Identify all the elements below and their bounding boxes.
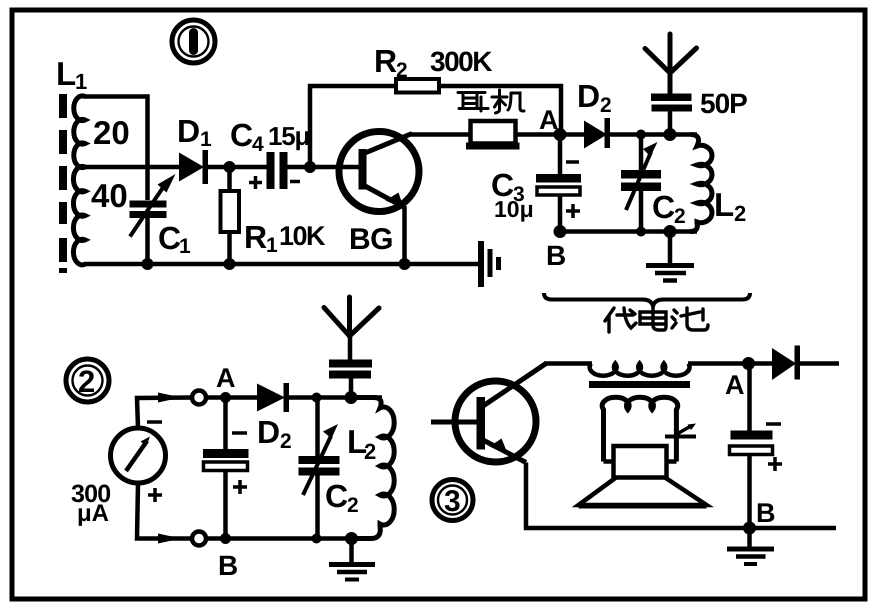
svg-text:C: C bbox=[325, 478, 348, 514]
wire: earphone to node A bbox=[516, 132, 560, 137]
label D1 bbox=[177, 113, 212, 151]
svg-text:2: 2 bbox=[600, 94, 612, 117]
wire: emitter down to bottom rail bbox=[526, 463, 836, 529]
resistor R1 bbox=[221, 167, 240, 264]
svg-text:20: 20 bbox=[93, 114, 130, 151]
main ground rail (circuit 1) bbox=[84, 262, 481, 267]
svg-text:2: 2 bbox=[78, 364, 95, 399]
arrow on bottom wire bbox=[158, 534, 181, 544]
node B (circuit 2) bbox=[220, 533, 231, 544]
wire: R2 to A node column bbox=[439, 86, 561, 132]
svg-text:1: 1 bbox=[179, 235, 191, 258]
svg-text:50P: 50P bbox=[700, 88, 747, 119]
wire: D1 to C4 bbox=[208, 165, 267, 170]
transformer primary bbox=[590, 364, 690, 376]
node: antenna junction (circuit 2) bbox=[345, 391, 358, 404]
wire: L1 top to C1 branch bbox=[84, 97, 148, 201]
label C2 (circuit 1) bbox=[652, 189, 686, 228]
label D2 (circuit 2) bbox=[257, 414, 292, 453]
label L2 (circuit 2) bbox=[347, 423, 376, 464]
svg-text:L: L bbox=[714, 186, 734, 223]
antenna (circuit 2) bbox=[324, 297, 379, 336]
svg-text:2: 2 bbox=[364, 439, 376, 464]
node: emitter-rail junction bbox=[399, 258, 411, 270]
capacitor C3 (electrolytic 10u) bbox=[536, 135, 581, 232]
earphone (erji) symbol bbox=[466, 121, 520, 150]
diode D2 (circuit 2) bbox=[257, 383, 289, 412]
inductor L1 coil (20+40 turns) bbox=[73, 96, 85, 265]
wire: meter bottom loop bbox=[137, 483, 192, 539]
svg-text:B: B bbox=[218, 550, 238, 581]
svg-text:2: 2 bbox=[674, 205, 686, 228]
circled 2 figure number bbox=[66, 359, 109, 402]
label 300 uA bbox=[71, 480, 110, 527]
wire: D2 to L2 (circuit 2) bbox=[289, 395, 382, 400]
wire: collector line to earphone bbox=[410, 132, 471, 137]
wire: junction up to R2 bbox=[310, 86, 396, 167]
arrow on top wire bbox=[158, 393, 181, 403]
node: C2 top (circuit 2) bbox=[312, 393, 322, 403]
ferrite core (dashed bar) of L1 bbox=[59, 94, 67, 273]
terminal (open circle) top bbox=[192, 391, 206, 405]
inductor L2 (circuit 2) bbox=[357, 398, 394, 539]
svg-text:D: D bbox=[577, 78, 600, 114]
circled 1 figure number bbox=[172, 20, 215, 63]
transformer core bbox=[589, 381, 690, 388]
capacitor C4 (electrolytic 15u) bbox=[249, 152, 300, 189]
label R1 10K bbox=[244, 219, 326, 257]
label 代电池 (substitute battery) bbox=[605, 306, 708, 332]
node A (circuit 2) bbox=[220, 392, 231, 403]
adjustable core arrow bbox=[665, 424, 696, 437]
wire: D2 to L2 top bbox=[610, 132, 697, 137]
svg-text:A: A bbox=[216, 363, 236, 393]
wire: bottom of battery-substitute section B to L2 bbox=[560, 229, 697, 234]
svg-text:B: B bbox=[546, 240, 566, 271]
node: ground junction (circuit 2) bbox=[345, 532, 358, 545]
svg-text:C: C bbox=[652, 189, 675, 225]
svg-text:C: C bbox=[230, 117, 253, 153]
svg-text:1: 1 bbox=[200, 128, 212, 151]
wire: bottom rail (circuit 2) bbox=[206, 536, 357, 541]
svg-text:C: C bbox=[158, 220, 181, 256]
svg-text:2: 2 bbox=[734, 201, 746, 226]
svg-text:D: D bbox=[257, 414, 280, 450]
node: C1 bottom bbox=[142, 258, 154, 270]
transistor BG bbox=[339, 132, 419, 212]
meter 300uA bbox=[111, 422, 166, 502]
capacitor (electrolytic, circuit 2) bbox=[203, 398, 249, 539]
speaker driver bbox=[614, 446, 667, 478]
diode D1 bbox=[179, 150, 208, 184]
svg-text:10μ: 10μ bbox=[494, 196, 534, 222]
svg-text:300K: 300K bbox=[430, 46, 492, 77]
svg-text:A: A bbox=[539, 105, 559, 135]
diode D2 bbox=[560, 118, 610, 149]
variable capacitor C2 (circuit 1) bbox=[621, 135, 661, 232]
ground (circuit 1 tank) bbox=[646, 232, 694, 281]
svg-text:15μ: 15μ bbox=[268, 121, 310, 151]
node: junction D1/R1 bbox=[224, 161, 236, 173]
svg-text:A: A bbox=[725, 370, 745, 400]
svg-text:μA: μA bbox=[77, 500, 109, 527]
svg-text:10K: 10K bbox=[279, 221, 326, 251]
wire: meter top loop bbox=[137, 398, 192, 429]
diode (circuit 3) bbox=[772, 346, 839, 381]
transistor (circuit 3) bbox=[431, 364, 546, 463]
svg-text:4: 4 bbox=[252, 133, 264, 156]
svg-text:2: 2 bbox=[347, 494, 359, 517]
wire: collector to transformer bbox=[544, 361, 592, 366]
label R2 300K bbox=[374, 43, 492, 82]
circled 3 figure number bbox=[432, 480, 473, 521]
variable capacitor C1 bbox=[130, 174, 176, 264]
svg-text:R: R bbox=[374, 43, 397, 79]
svg-text:B: B bbox=[756, 498, 776, 528]
antenna coupling capacitor (circuit 2) bbox=[329, 336, 372, 398]
ground (circuit 2) bbox=[329, 539, 375, 580]
capacitor (electrolytic, circuit 3) bbox=[730, 364, 783, 529]
label C3 10u bbox=[491, 167, 534, 222]
svg-text:40: 40 bbox=[91, 177, 128, 214]
wire: emitter to ground rail bbox=[402, 206, 407, 264]
svg-text:2: 2 bbox=[396, 59, 408, 82]
wire: terminal to D2 bbox=[206, 395, 258, 400]
terminal (open circle) bottom bbox=[192, 532, 206, 546]
svg-text:3: 3 bbox=[444, 485, 461, 518]
node B bbox=[554, 225, 567, 238]
label 耳机 (earphone) bbox=[458, 90, 524, 113]
node: C2 top junction bbox=[636, 130, 646, 140]
node: C2 bottom junction bbox=[636, 227, 646, 237]
secondary stubs to speaker bbox=[604, 459, 677, 464]
brace for battery substitute bbox=[544, 293, 750, 306]
label L2 (circuit 1) bbox=[714, 186, 746, 226]
label L1 bbox=[56, 55, 87, 94]
wire: L1 tap to D1 bbox=[84, 165, 180, 170]
svg-text:R: R bbox=[244, 219, 267, 255]
node: ground junction bbox=[664, 225, 677, 238]
svg-text:1: 1 bbox=[75, 69, 87, 94]
label C4 15u bbox=[230, 117, 310, 156]
svg-text:1: 1 bbox=[266, 234, 278, 257]
inductor L2 (circuit 1) bbox=[690, 135, 712, 232]
antenna (circuit 1) bbox=[645, 34, 697, 94]
svg-text:BG: BG bbox=[349, 223, 393, 256]
variable capacitor C2 (circuit 2) bbox=[299, 398, 340, 539]
node: base/R2 junction bbox=[304, 161, 316, 173]
svg-text:L: L bbox=[56, 55, 76, 92]
node A bbox=[554, 128, 567, 141]
transformer secondary bbox=[602, 397, 678, 461]
resistor R2 bbox=[396, 79, 439, 93]
wire: transformer to node A (circuit 3) bbox=[688, 361, 773, 366]
node B (circuit 3) bbox=[743, 522, 756, 535]
svg-text:D: D bbox=[177, 113, 200, 149]
node: R1 bottom bbox=[224, 258, 236, 270]
capacitor 50P bbox=[651, 94, 692, 135]
node A (circuit 3) bbox=[742, 357, 755, 370]
node: antenna junction bbox=[664, 128, 677, 141]
label D2 bbox=[577, 78, 612, 117]
speaker cone bbox=[579, 478, 707, 506]
ground (emitter rail, rotated earth) bbox=[481, 241, 499, 287]
label C1 bbox=[158, 220, 191, 258]
svg-text:2: 2 bbox=[280, 430, 292, 453]
label C2 (circuit 2) bbox=[325, 478, 359, 517]
node: C2 bottom (circuit 2) bbox=[312, 534, 322, 544]
wire: C4 to BG base bbox=[287, 165, 359, 170]
ground (circuit 3) bbox=[727, 528, 774, 564]
